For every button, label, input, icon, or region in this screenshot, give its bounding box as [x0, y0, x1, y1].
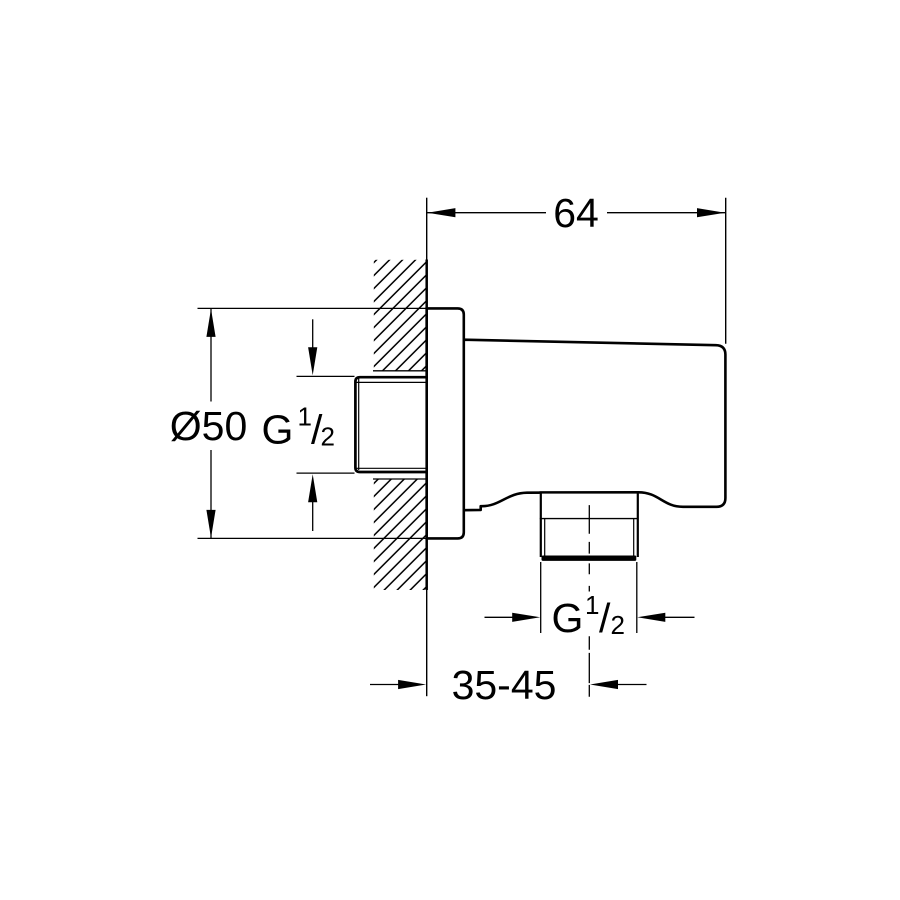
dim 35-45 arrow left [398, 680, 426, 689]
stub side right [637, 492, 639, 557]
svg-text:35-45: 35-45 [452, 662, 557, 708]
wall surface line [425, 260, 428, 591]
wall hatching lower [374, 479, 427, 590]
wall hatching upper [374, 260, 427, 371]
wall hole boundary lower [373, 478, 427, 480]
outlet dim arrow right line [665, 616, 695, 618]
svg-text:/: / [599, 595, 611, 641]
dim 35-45 line left [370, 684, 399, 686]
dim diameter line lower [210, 450, 212, 538]
inlet thread line bottom [356, 467, 427, 469]
stub top line [540, 491, 639, 493]
svg-text:2: 2 [321, 422, 335, 452]
inlet dim arrow up shaft [312, 501, 314, 532]
svg-text:G: G [262, 407, 294, 453]
dim 35-45 line right [618, 684, 647, 686]
outlet dim ext left [540, 562, 542, 633]
dim 64 right ext line [725, 198, 727, 344]
svg-text:2: 2 [611, 610, 625, 640]
outlet dim arrow right [637, 613, 665, 622]
body outline [464, 340, 726, 511]
svg-text:G: G [552, 595, 584, 641]
svg-text:1: 1 [298, 402, 312, 432]
svg-text:Ø50: Ø50 [170, 403, 248, 449]
flange [427, 308, 464, 538]
inlet dim arrow up [308, 474, 317, 502]
dim 35-45 arrow right [590, 680, 618, 689]
center line dash-dot [588, 505, 590, 697]
dim diameter arrow down [206, 510, 215, 538]
inlet dim ext top [297, 375, 355, 377]
stub end black band [542, 556, 637, 561]
dim 64 arrow left [427, 208, 455, 217]
stub thread top line [540, 518, 639, 520]
outlet stub white [540, 494, 639, 561]
outlet dim ext right [636, 562, 638, 633]
outlet dim arrow left [512, 613, 540, 622]
svg-text:1: 1 [585, 590, 599, 620]
dim 64 line left [427, 212, 546, 214]
svg-text:64: 64 [553, 190, 599, 236]
dim diameter arrow up [206, 309, 215, 337]
wall hole boundary upper [373, 370, 427, 372]
dimension ext line diameter top [198, 307, 428, 309]
dim 64 arrow right [697, 208, 725, 217]
wall line lower thin (35-45 ext) [426, 590, 428, 696]
stub thread inner right [633, 519, 635, 556]
inlet square white [354, 376, 427, 473]
inlet dim ext bottom [297, 472, 355, 474]
outlet dim arrow left line [485, 616, 514, 618]
dim 64 line right [607, 212, 725, 214]
inlet dim arrow down [308, 347, 317, 375]
inlet thread line top [356, 381, 427, 383]
stub side left [540, 492, 542, 557]
inlet square outline [355, 377, 427, 472]
inlet dim arrow down shaft [312, 319, 314, 349]
dim diameter line upper [210, 308, 212, 401]
dimension ext line diameter bottom [198, 537, 428, 539]
inlet thread line left [358, 379, 360, 471]
wall line upper thin (64 ext) [426, 198, 428, 260]
stub thread inner left [544, 519, 546, 556]
